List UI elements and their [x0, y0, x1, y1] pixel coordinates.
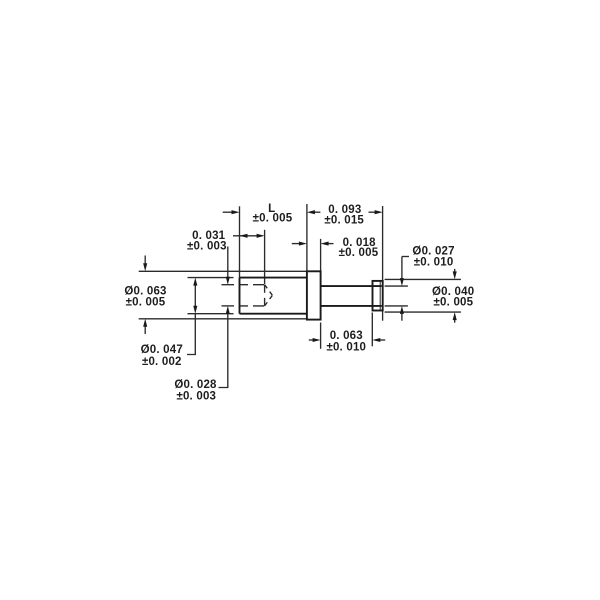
svg-text:±0. 005: ±0. 005	[339, 247, 379, 259]
svg-text:Ø0. 063: Ø0. 063	[124, 285, 166, 297]
svg-text:±0. 005: ±0. 005	[434, 296, 474, 308]
svg-text:±0. 010: ±0. 010	[414, 256, 454, 268]
svg-text:±0. 010: ±0. 010	[326, 341, 366, 353]
svg-text:±0. 005: ±0. 005	[253, 212, 293, 224]
svg-text:Ø0. 047: Ø0. 047	[141, 344, 183, 356]
svg-text:0. 063: 0. 063	[330, 330, 363, 342]
svg-text:±0. 003: ±0. 003	[176, 391, 216, 403]
svg-text:±0. 003: ±0. 003	[187, 241, 227, 253]
svg-text:±0. 005: ±0. 005	[126, 297, 166, 309]
svg-text:±0. 015: ±0. 015	[324, 214, 364, 226]
svg-text:Ø0. 028: Ø0. 028	[174, 379, 217, 391]
svg-text:±0. 002: ±0. 002	[142, 356, 182, 368]
